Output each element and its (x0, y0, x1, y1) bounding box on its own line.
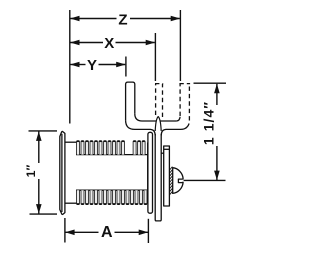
dashed cam straight-up position right edge (162, 84, 164, 117)
cam yoke left arm (126, 82, 135, 120)
dimension A line (65, 231, 98, 233)
thread crests bottom (77, 203, 79, 205)
dimension 1-1/4" line (216, 84, 218, 105)
cylinder bottom silhouette at flange (65, 202, 77, 204)
dashed cam straight-up position tip (155, 83, 163, 85)
extension line left (flange face) (69, 10, 71, 124)
cylinder rear end face (147, 143, 149, 204)
extension line Z (right cam position) (179, 10, 181, 81)
mounting plate (164, 146, 170, 206)
flange inner edge (61, 134, 63, 212)
cam yoke outer bottom right (161, 124, 189, 136)
thread crests top (77, 140, 79, 142)
dashed cam right-bent position tip (179, 83, 190, 85)
cam bar pointing down (155, 134, 161, 221)
thread root line bottom (76, 189, 147, 191)
rear collar plate (148, 132, 153, 213)
screw thread hatching (170, 167, 173, 195)
dimension Z line (70, 18, 116, 20)
dimension Y line (70, 64, 85, 66)
svg-text:1 1/4″: 1 1/4″ (201, 101, 217, 145)
extension line X (straight cam position) (154, 33, 156, 81)
dashed cam straight-up position left edge (155, 84, 157, 115)
dimension 1" extension bottom (30, 213, 58, 215)
dimension 1" extension top (29, 130, 58, 132)
screw head (173, 168, 183, 194)
svg-text:1″: 1″ (24, 165, 38, 178)
svg-text:A: A (101, 224, 113, 241)
dimension A extension right (147, 219, 149, 243)
extension line Y (left cam position) (125, 57, 127, 77)
cam straight-position base arch (155, 117, 161, 131)
svg-text:Y: Y (87, 57, 97, 74)
dashed cam right-bent position outer edge (188, 84, 190, 121)
threads bottom row (77, 190, 80, 204)
dimension 1" line (38, 132, 40, 164)
thread root line top (76, 154, 148, 156)
cam yoke inner right curve (177, 117, 181, 121)
cam yoke inner bottom (135, 114, 177, 121)
mounting plate top step line (164, 148, 170, 150)
dimension X line (70, 42, 103, 44)
cam yoke outer bottom left (126, 120, 156, 135)
dimension A extension left (64, 218, 66, 243)
threads top row (77, 141, 80, 155)
svg-text:X: X (104, 35, 114, 52)
dimension 1-1/4" extension bottom (184, 179, 226, 181)
dimension 1-1/4" extension top (194, 82, 227, 84)
dashed cam right-bent position inner edge (179, 84, 181, 116)
hidden edge between cam and plate (161, 152, 164, 154)
svg-text:Z: Z (118, 11, 127, 28)
cylinder top silhouette at flange (65, 141, 77, 143)
flange bezel outline (60, 131, 65, 214)
